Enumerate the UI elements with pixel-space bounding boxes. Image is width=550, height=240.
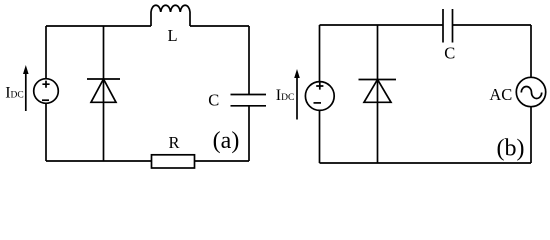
inductor L bbox=[151, 5, 190, 26]
wire bottom-left (a) bbox=[46, 160, 152, 162]
wire left lower (b) bbox=[319, 110, 321, 163]
current source I2 circle bbox=[305, 82, 334, 111]
diode D1 triangle bbox=[91, 79, 116, 102]
wire right lower (b) bbox=[530, 107, 532, 163]
svg-text:(b): (b) bbox=[497, 135, 525, 161]
wire top-left (a) bbox=[46, 25, 151, 27]
arrow of IDC (b) bbox=[296, 75, 298, 120]
diode D2 wire bbox=[377, 25, 379, 163]
plus of I2 bbox=[316, 82, 323, 89]
wire right upper (a) bbox=[248, 26, 250, 95]
wire bottom (b) bbox=[320, 162, 532, 164]
wire left upper (b) bbox=[319, 25, 321, 82]
capacitor C2 plates bbox=[443, 9, 453, 43]
diode D1 cathode bar bbox=[87, 78, 120, 80]
minus of I2 bbox=[314, 102, 322, 104]
wire left lower (a) bbox=[45, 103, 47, 161]
wire right upper (b) bbox=[530, 25, 532, 78]
svg-text:IDC: IDC bbox=[5, 84, 24, 101]
wire left upper (a) bbox=[45, 26, 47, 79]
wire bottom-right (a) bbox=[195, 160, 250, 162]
svg-text:C: C bbox=[208, 91, 219, 110]
svg-text:IDC: IDC bbox=[276, 87, 295, 104]
wire top-right (b) bbox=[453, 24, 532, 26]
svg-text:AC: AC bbox=[489, 85, 512, 104]
diode D2 triangle bbox=[364, 80, 391, 103]
current source I1 circle bbox=[34, 79, 59, 104]
wire top-right (a) bbox=[190, 25, 249, 27]
arrow of IDC (a) bbox=[25, 71, 27, 111]
minus of I1 bbox=[42, 99, 49, 101]
svg-text:C: C bbox=[444, 44, 455, 63]
AC source circle bbox=[516, 77, 545, 106]
arrowhead IDC (a) bbox=[23, 65, 29, 74]
capacitor C1 plates bbox=[231, 95, 267, 106]
diode D2 cathode bar bbox=[359, 79, 397, 81]
AC sine wave bbox=[521, 86, 541, 98]
svg-text:L: L bbox=[168, 26, 178, 45]
svg-text:R: R bbox=[168, 133, 179, 152]
svg-text:(a): (a) bbox=[213, 128, 240, 154]
wire right lower (a) bbox=[248, 106, 250, 161]
diode D1 wire bbox=[103, 26, 105, 161]
resistor R box bbox=[152, 155, 195, 168]
plus of I1 bbox=[42, 81, 49, 88]
arrowhead IDC (b) bbox=[294, 69, 300, 78]
wire top-left (b) bbox=[320, 24, 444, 26]
